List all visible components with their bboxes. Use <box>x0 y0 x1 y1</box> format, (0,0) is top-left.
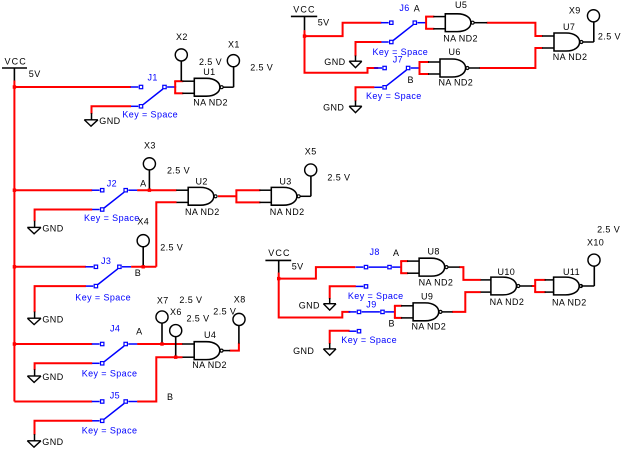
svg-text:U11: U11 <box>563 267 580 277</box>
svg-text:U8: U8 <box>428 247 440 257</box>
NAND2 gate U8 <box>400 247 453 288</box>
svg-text:NA ND2: NA ND2 <box>270 207 305 217</box>
svg-text:X10: X10 <box>587 238 604 248</box>
wire J1 throw2 to GND (U1 circuit) <box>92 106 132 114</box>
svg-text:NA ND2: NA ND2 <box>553 52 588 62</box>
wire VCC rail left (feeds J1,J2,J3,J4,J5) <box>13 87 15 402</box>
svg-text:VCC: VCC <box>5 56 27 66</box>
wire U2 output to U3 inputs <box>218 195 236 197</box>
svg-text:X2: X2 <box>176 32 188 42</box>
ground GND (J9) <box>293 343 336 356</box>
svg-text:2.5 V: 2.5 V <box>597 225 620 235</box>
probe X1 <box>227 39 239 87</box>
svg-text:X7: X7 <box>157 295 169 305</box>
ground GND (J7) <box>323 101 362 113</box>
svg-text:2.5 V: 2.5 V <box>213 307 236 317</box>
switch J3 (SPDT, Key = Space) <box>85 256 131 288</box>
svg-text:B: B <box>408 75 414 85</box>
wire rail to J3 pole <box>14 266 86 268</box>
junction VCC3 junction <box>277 277 280 280</box>
svg-text:NA ND2: NA ND2 <box>192 360 227 370</box>
svg-text:GND: GND <box>42 314 63 324</box>
wire X4/J3 node B up to U2 input B <box>156 202 176 266</box>
svg-text:Key = Space: Key = Space <box>82 425 138 435</box>
wire J8 throw2 stub to GND <box>330 286 356 298</box>
svg-text:VCC: VCC <box>293 5 315 15</box>
wire J7 throw2 to GND <box>356 87 375 101</box>
wire U8 output to U10 input A <box>459 267 481 280</box>
svg-text:X6: X6 <box>170 307 182 317</box>
svg-text:NA ND2: NA ND2 <box>419 277 454 287</box>
svg-text:GND: GND <box>42 437 63 447</box>
svg-text:U5: U5 <box>455 0 467 10</box>
svg-text:X1: X1 <box>228 39 240 49</box>
svg-text:Key = Space: Key = Space <box>341 335 397 345</box>
junction node A2 / X7 <box>160 342 163 345</box>
wire rail elbow to J5 row <box>14 401 92 403</box>
wire J6 throw2 to GND <box>356 42 382 56</box>
ground GND (J5) <box>27 434 63 447</box>
switch J9 (SPDT, Key = Space) <box>349 299 395 333</box>
switch J6 (SPDT, Key = Space) <box>381 3 427 44</box>
NAND2 gate U5 <box>425 0 478 43</box>
wire J5 throw2 to GND <box>35 421 93 435</box>
svg-text:A: A <box>140 178 146 188</box>
NAND2 gate U1 <box>174 67 228 107</box>
wire J2 throw2 to GND <box>35 210 93 222</box>
svg-text:Key = Space: Key = Space <box>82 369 138 379</box>
svg-text:GND: GND <box>299 300 320 310</box>
wire J3 throw1 to node B (X4) <box>131 266 156 268</box>
wire VCC2 rail down to J7 row <box>305 36 379 73</box>
svg-text:A: A <box>393 248 399 258</box>
svg-text:X3: X3 <box>144 141 156 151</box>
svg-text:NA ND2: NA ND2 <box>443 34 478 44</box>
NAND2 gate U10 <box>481 267 525 307</box>
junction node B2 / X6 <box>174 356 177 359</box>
svg-text:5V: 5V <box>292 261 304 271</box>
ground GND (J2) <box>27 221 63 234</box>
ground GND (J1) <box>84 113 120 126</box>
switch J8 (SPDT, Key = Space) <box>356 247 402 288</box>
probe X10 <box>587 238 604 287</box>
probe X8 <box>233 294 246 343</box>
junction rail / J2 row <box>13 189 16 192</box>
svg-text:U4: U4 <box>204 330 216 340</box>
probe X2 <box>175 32 188 81</box>
wire rail to J2 pole <box>14 189 92 191</box>
svg-text:2.5 V: 2.5 V <box>250 62 273 72</box>
svg-text:GND: GND <box>42 224 63 234</box>
wire U8 output lead <box>448 266 459 268</box>
wire VCC rail to J1 pole <box>14 86 131 88</box>
svg-text:GND: GND <box>99 116 120 126</box>
wire U4 output lead <box>223 350 230 352</box>
wire U3 output to X5 <box>300 195 311 197</box>
svg-text:X4: X4 <box>137 216 149 226</box>
wire VCC2 to J6 pole <box>305 23 382 36</box>
svg-text:NA ND2: NA ND2 <box>193 98 228 108</box>
svg-text:5V: 5V <box>29 69 41 79</box>
wire U5 output lead <box>474 22 487 24</box>
junction node A / X3 <box>148 189 151 192</box>
NAND2 gate U9 <box>394 291 446 331</box>
svg-text:J5: J5 <box>110 390 120 400</box>
wire U9 output lead <box>442 311 453 313</box>
probe X6 <box>170 307 182 357</box>
svg-text:NA ND2: NA ND2 <box>185 207 220 217</box>
wire J4 throw2 to GND <box>35 363 93 370</box>
svg-text:X5: X5 <box>305 147 317 157</box>
svg-text:U6: U6 <box>449 47 461 57</box>
wire J2 throw1 to node A / U2 input A <box>137 189 176 191</box>
wire J9 throw2 stub to GND <box>330 331 350 344</box>
svg-text:J3: J3 <box>101 256 111 266</box>
svg-text:J4: J4 <box>110 323 120 333</box>
NAND2 gate U3 <box>235 176 304 217</box>
svg-text:VCC: VCC <box>268 248 290 258</box>
svg-text:NA ND2: NA ND2 <box>439 77 474 87</box>
svg-text:U2: U2 <box>196 176 208 186</box>
wire rail to J4 pole <box>14 343 92 345</box>
svg-text:Key = Space: Key = Space <box>75 293 131 303</box>
svg-text:5V: 5V <box>318 18 330 28</box>
wire U10 output lead <box>520 285 532 287</box>
switch J4 (SPDT, Key = Space) <box>92 323 138 365</box>
wire U11 output to X10 <box>581 285 594 287</box>
wire U1 output to X1 <box>223 86 233 88</box>
svg-text:J8: J8 <box>370 247 380 257</box>
svg-text:B: B <box>135 268 141 278</box>
switch J1 (SPDT, Key = Space) <box>131 73 177 108</box>
power VCC supply V3 (5V) bottom-right <box>265 248 303 273</box>
svg-text:2.5 V: 2.5 V <box>187 314 210 324</box>
NAND2 gate U6 <box>419 47 474 87</box>
wire U4 output to X8 <box>230 343 239 351</box>
switch J5 (SPDT, Key = Space) <box>92 390 138 422</box>
NAND2 gate U11 <box>534 267 587 308</box>
NAND2 gate U2 <box>176 176 220 217</box>
svg-text:GND: GND <box>324 57 345 67</box>
NAND2 gate U4 <box>182 330 227 370</box>
switch J2 (SPDT, Key = Space) <box>92 178 138 211</box>
wire VCC3 to J8 pole <box>279 267 356 279</box>
NAND2 gate U7 <box>542 22 587 62</box>
svg-text:J7: J7 <box>393 55 403 65</box>
wire U9 output to U10 input B <box>452 292 481 312</box>
wire J3 throw2 to GND <box>35 286 86 312</box>
svg-text:J9: J9 <box>366 299 376 309</box>
wire U6 output lead <box>469 67 480 69</box>
svg-text:2.5 V: 2.5 V <box>327 173 350 183</box>
svg-text:2.5 V: 2.5 V <box>160 242 183 252</box>
wire VCC V3 stem (red) <box>278 273 280 279</box>
svg-text:A: A <box>414 3 420 13</box>
ground GND (J4) <box>27 369 63 382</box>
junction rail / J3 row <box>13 265 16 268</box>
ground GND (J6) <box>324 56 362 68</box>
ground GND (J8) <box>299 298 336 310</box>
wire J4 throw1 to node A2 / U4 input A <box>137 343 182 345</box>
svg-text:X9: X9 <box>569 5 581 15</box>
svg-text:2.5 V: 2.5 V <box>179 295 202 305</box>
power VCC supply V1 (5V) top-left <box>2 56 41 81</box>
svg-text:U10: U10 <box>498 267 516 277</box>
svg-text:J1: J1 <box>148 73 158 83</box>
svg-text:GND: GND <box>323 102 344 112</box>
svg-text:GND: GND <box>42 372 63 382</box>
ground GND (J3) <box>27 312 63 325</box>
svg-text:2.5 V: 2.5 V <box>167 166 190 176</box>
svg-text:2.5 V: 2.5 V <box>199 57 222 67</box>
svg-text:Key = Space: Key = Space <box>122 110 178 120</box>
wire U6 output to U7 input B <box>479 48 542 68</box>
svg-text:GND: GND <box>293 346 314 356</box>
svg-text:U9: U9 <box>421 291 433 301</box>
probe X7 <box>156 295 169 344</box>
wire J5 throw1 to node B2 / U4 input B <box>137 357 182 401</box>
probe X9 <box>569 5 600 42</box>
svg-text:NA ND2: NA ND2 <box>552 297 587 307</box>
wire VCC V1 stem (red) <box>13 81 15 88</box>
wire U5 output to U7 input A <box>487 23 543 36</box>
svg-text:NA ND2: NA ND2 <box>490 297 525 307</box>
svg-text:U3: U3 <box>279 176 291 186</box>
junction VCC2 junction <box>303 34 306 37</box>
svg-text:B: B <box>167 392 173 402</box>
svg-text:B: B <box>389 318 395 328</box>
svg-text:Key = Space: Key = Space <box>366 91 422 101</box>
svg-text:2.5 V: 2.5 V <box>598 32 621 42</box>
svg-text:X8: X8 <box>234 294 246 304</box>
probe X4 <box>137 216 149 266</box>
wire U10 output to U11 inputs <box>532 285 536 287</box>
wire U7 output to X9 <box>583 41 594 43</box>
svg-text:A: A <box>136 326 142 336</box>
junction rail / J4 row <box>13 342 16 345</box>
svg-text:U1: U1 <box>203 67 215 77</box>
probe X5 <box>305 147 317 197</box>
junction VCC1 stem / J1 row <box>13 85 16 88</box>
svg-text:Key = Space: Key = Space <box>84 213 140 223</box>
svg-text:NA ND2: NA ND2 <box>412 321 447 331</box>
wire VCC3 rail down to J9 row <box>279 279 351 318</box>
svg-text:U7: U7 <box>563 22 575 32</box>
svg-text:J2: J2 <box>107 178 117 188</box>
power VCC supply V2 (5V) top-right <box>291 5 330 31</box>
svg-text:J6: J6 <box>399 3 409 13</box>
wire VCC V2 stem (red) <box>304 30 306 36</box>
junction node B / X4 <box>142 265 145 268</box>
probe X3 <box>143 141 155 191</box>
switch J7 (SPDT, Key = Space) <box>374 55 420 89</box>
